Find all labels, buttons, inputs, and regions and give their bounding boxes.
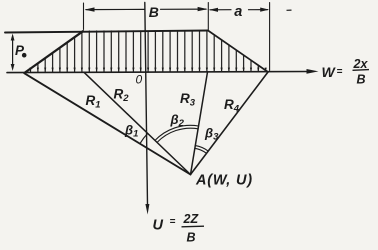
svg-text:=: =: [170, 217, 176, 228]
svg-text:0: 0: [136, 73, 143, 87]
svg-text:a: a: [234, 4, 242, 20]
svg-text:=: =: [337, 67, 343, 78]
svg-text:B: B: [187, 231, 196, 245]
svg-text:B: B: [357, 73, 366, 87]
svg-text:U: U: [153, 218, 164, 234]
svg-text:B: B: [149, 4, 159, 20]
svg-text:A(W, U): A(W, U): [195, 173, 253, 189]
svg-text:W: W: [322, 64, 337, 80]
svg-text:2Z: 2Z: [183, 212, 200, 226]
svg-text:2x: 2x: [353, 57, 369, 71]
